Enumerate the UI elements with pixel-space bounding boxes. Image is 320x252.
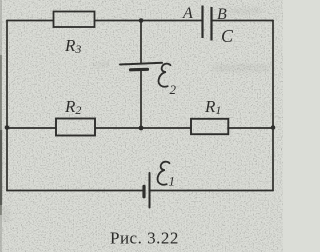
capacitor plates A-B bbox=[203, 6, 212, 41]
svg-text:Рис. 3.22: Рис. 3.22 bbox=[110, 229, 179, 248]
node junction E2 top bbox=[139, 18, 144, 23]
node junction left bbox=[5, 125, 10, 130]
wire bottom-left segment bbox=[7, 190, 144, 192]
wire middle-right segment bbox=[228, 127, 273, 129]
node junction E2 bottom bbox=[139, 126, 144, 131]
wire top-middle segment bbox=[95, 20, 203, 22]
svg-text:C: C bbox=[221, 26, 234, 46]
svg-text:A: A bbox=[182, 5, 193, 22]
svg-text:1: 1 bbox=[169, 174, 176, 189]
wire middle-center segment bbox=[95, 127, 191, 129]
svg-text:2: 2 bbox=[170, 82, 177, 97]
node junction right bbox=[271, 125, 276, 130]
svg-text:B: B bbox=[217, 6, 227, 23]
wire top-right segment bbox=[212, 20, 274, 22]
wire left vertical bbox=[6, 21, 8, 191]
resistor R1 bbox=[191, 97, 228, 134]
resistor R3 bbox=[54, 12, 95, 57]
wire E2 branch lower bbox=[140, 70, 142, 128]
left scan edge artifact bbox=[0, 0, 2, 252]
wire bottom-right segment bbox=[150, 190, 273, 192]
wire E2 branch upper bbox=[140, 21, 142, 64]
wire right vertical bbox=[272, 21, 274, 191]
wire top-left segment bbox=[7, 20, 54, 22]
wire middle-left segment bbox=[7, 127, 56, 129]
battery E1 bbox=[144, 162, 175, 208]
battery E2 bbox=[120, 63, 177, 97]
resistor R2 bbox=[56, 97, 95, 136]
